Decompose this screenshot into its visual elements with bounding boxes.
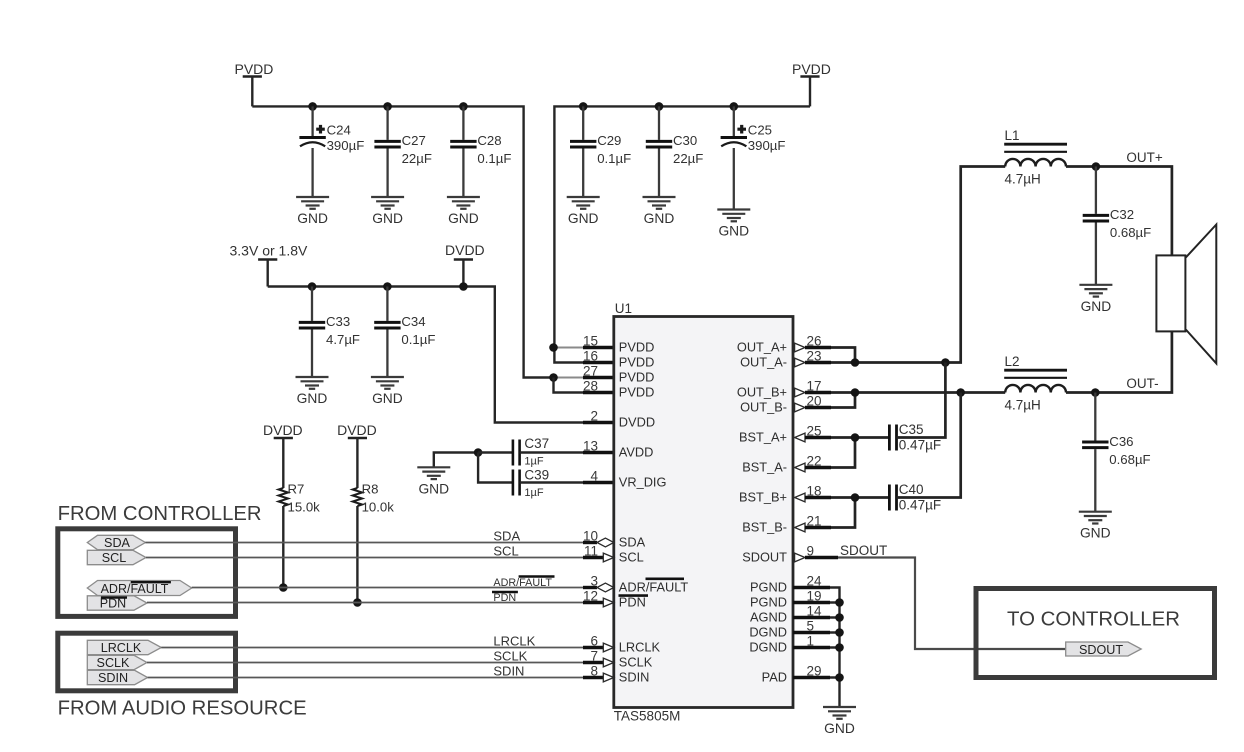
svg-text:GND: GND xyxy=(448,211,479,226)
wire SCLK xyxy=(147,662,583,664)
svg-text:OUT_B+: OUT_B+ xyxy=(737,384,787,399)
wire ADR/FAULT xyxy=(192,587,583,589)
node BST_A join xyxy=(851,433,860,442)
pin arrow SCL xyxy=(603,553,614,562)
node rail1/C28 xyxy=(459,102,468,111)
wire SDA xyxy=(145,542,583,544)
ground (C32) xyxy=(1079,285,1112,297)
svg-text:10.0k: 10.0k xyxy=(362,500,395,515)
svg-text:GND: GND xyxy=(1081,299,1112,314)
node rail2/C25 xyxy=(730,102,739,111)
wire OUT_A+ xyxy=(805,348,855,363)
svg-text:TAS5805M: TAS5805M xyxy=(614,708,681,723)
svg-text:1µF: 1µF xyxy=(524,455,543,467)
svg-text:AGND: AGND xyxy=(750,609,787,624)
net flag SDOUT out xyxy=(1066,642,1142,656)
wire pin 28 elbow xyxy=(554,378,614,393)
svg-text:390µF: 390µF xyxy=(327,138,365,153)
svg-text:BST_A+: BST_A+ xyxy=(739,429,787,444)
svg-text:GND: GND xyxy=(418,481,449,496)
node rail2/C30 xyxy=(655,102,664,111)
svg-text:OUT_B-: OUT_B- xyxy=(740,399,787,414)
svg-text:DVDD: DVDD xyxy=(619,414,655,429)
node BST_B join xyxy=(851,493,860,502)
box FROM CONTROLLER xyxy=(58,529,236,617)
wire PVDD rail 1 xyxy=(252,106,556,377)
node rail1/C27 xyxy=(383,102,392,111)
node PGND 19 xyxy=(835,598,844,607)
power flag DVDD R8 xyxy=(337,422,377,488)
svg-text:PVDD: PVDD xyxy=(619,384,655,399)
wire PVDD rail 2 xyxy=(554,106,810,362)
wire OUT_B+ to L2 xyxy=(805,391,1005,394)
node OUT-/C36 xyxy=(1091,388,1100,397)
node OUT_A join xyxy=(851,358,860,367)
wire SDOUT xyxy=(805,556,838,559)
ground (C34) xyxy=(371,377,404,389)
wire L2 to OUT- corner xyxy=(1066,331,1172,392)
svg-text:SCLK: SCLK xyxy=(97,656,130,670)
net flag PDN xyxy=(87,596,147,610)
svg-text:DVDD: DVDD xyxy=(337,422,377,438)
svg-text:OUT_A+: OUT_A+ xyxy=(737,339,787,354)
wire OUT_A- to L1 xyxy=(805,167,1005,363)
wire R7 to ADR/FAULT xyxy=(282,506,284,588)
capacitor C37 1µF xyxy=(478,436,549,467)
pin arrow LRCLK xyxy=(603,643,614,652)
svg-text:27: 27 xyxy=(583,364,598,379)
svg-text:AVDD: AVDD xyxy=(619,444,654,459)
svg-text:PGND: PGND xyxy=(750,594,787,609)
wire C39 branch xyxy=(478,453,513,483)
wire C35 to OUT_A- xyxy=(897,363,946,438)
pin names U1 left xyxy=(619,339,689,684)
svg-text:2: 2 xyxy=(590,409,598,424)
pin arrow BST_B- xyxy=(795,523,805,532)
svg-text:ADR/FAULT: ADR/FAULT xyxy=(101,582,169,596)
svg-text:FROM AUDIO RESOURCE: FROM AUDIO RESOURCE xyxy=(58,697,307,719)
svg-text:0.68µF: 0.68µF xyxy=(1110,225,1151,240)
svg-text:C27: C27 xyxy=(402,133,426,148)
wire C40 to OUT_B xyxy=(897,393,961,498)
wire L1 to OUT+ corner xyxy=(1066,167,1172,256)
node DGND 1 xyxy=(835,643,844,652)
svg-text:C32: C32 xyxy=(1110,207,1134,222)
svg-text:SDA: SDA xyxy=(619,534,646,549)
svg-text:C39: C39 xyxy=(524,468,549,483)
svg-text:VR_DIG: VR_DIG xyxy=(619,474,667,489)
svg-text:L2: L2 xyxy=(1005,354,1020,369)
pin arrow ADR/FAULT xyxy=(597,583,614,592)
wire AGND 14 xyxy=(793,616,840,618)
pin arrow OUT_A- xyxy=(795,358,805,367)
svg-text:C34: C34 xyxy=(401,314,425,329)
capacitor C36 0.68µF xyxy=(1082,393,1151,512)
svg-text:4.7µH: 4.7µH xyxy=(1005,397,1041,412)
svg-text:GND: GND xyxy=(372,211,403,226)
power flag DVDD top xyxy=(445,242,485,287)
svg-text:22µF: 22µF xyxy=(673,151,703,166)
svg-text:SDA: SDA xyxy=(104,536,130,550)
svg-text:SDIN: SDIN xyxy=(619,669,650,684)
wire R8 to PDN xyxy=(356,506,358,603)
net flag LRCLK xyxy=(87,640,161,654)
node pin27/28 junction xyxy=(549,373,558,382)
svg-text:0.68µF: 0.68µF xyxy=(1109,452,1150,467)
node rail3/DVDD xyxy=(459,282,468,291)
svg-text:TO CONTROLLER: TO CONTROLLER xyxy=(1007,609,1180,631)
box TO CONTROLLER xyxy=(976,589,1215,678)
svg-text:13: 13 xyxy=(583,439,598,454)
svg-text:SDOUT: SDOUT xyxy=(840,543,887,558)
capacitor C40 0.47µF xyxy=(889,482,941,512)
wire BST_A- xyxy=(805,438,855,468)
svg-text:ADR/FAULT: ADR/FAULT xyxy=(493,577,552,589)
wire PGND 24 elbow xyxy=(793,588,840,707)
capacitor C28 0.1µF xyxy=(450,106,511,197)
svg-text:PVDD: PVDD xyxy=(619,354,655,369)
net flag SCLK xyxy=(87,655,147,669)
svg-text:C29: C29 xyxy=(597,133,621,148)
node OUT+/C32 xyxy=(1092,162,1101,171)
wire LRCLK xyxy=(161,647,583,649)
ground (C33) xyxy=(296,377,329,389)
svg-text:GND: GND xyxy=(297,391,328,406)
wire pin 4 xyxy=(520,481,614,483)
pin arrow BST_A- xyxy=(795,463,805,472)
svg-text:GND: GND xyxy=(1080,526,1111,541)
capacitor C34 0.1µF xyxy=(374,287,435,378)
svg-text:PGND: PGND xyxy=(750,579,787,594)
ground (C24) xyxy=(296,197,329,209)
capacitor C30 22µF xyxy=(646,106,704,197)
svg-text:0.47µF: 0.47µF xyxy=(899,497,941,512)
svg-text:C36: C36 xyxy=(1109,434,1133,449)
wire pin 27 stub xyxy=(554,377,584,379)
resistor R8 10.0k xyxy=(353,482,395,515)
wire PAD 29 xyxy=(793,676,840,678)
svg-text:DGND: DGND xyxy=(749,639,787,654)
net flag SCL xyxy=(87,550,146,564)
svg-text:C35: C35 xyxy=(899,422,924,437)
overline FAULT (pin 3 name) xyxy=(646,577,685,580)
wire DGND 5 xyxy=(793,631,840,633)
ground (C25) xyxy=(717,210,750,222)
svg-text:PDN: PDN xyxy=(493,592,516,604)
svg-text:PVDD: PVDD xyxy=(619,339,655,354)
node rail3/C33 xyxy=(308,282,317,291)
capacitor C25 390µF xyxy=(721,106,786,209)
svg-text:OUT+: OUT+ xyxy=(1126,150,1162,165)
svg-text:SCLK: SCLK xyxy=(493,648,527,663)
svg-text:C33: C33 xyxy=(326,314,350,329)
node rail2/C29 xyxy=(579,102,588,111)
svg-text:LRCLK: LRCLK xyxy=(619,639,661,654)
wire 3.3V/DVDD rail xyxy=(268,287,614,423)
wire BST_A+ xyxy=(805,436,889,439)
svg-text:DVDD: DVDD xyxy=(445,242,485,258)
pin arrow SDA xyxy=(597,538,614,547)
svg-text:1µF: 1µF xyxy=(524,487,543,499)
svg-text:C40: C40 xyxy=(899,482,924,497)
svg-text:3.3V or 1.8V: 3.3V or 1.8V xyxy=(230,242,308,258)
wire BST_B+ xyxy=(805,496,889,499)
svg-text:SDA: SDA xyxy=(493,528,520,543)
pin numbers U1 right xyxy=(807,334,823,679)
svg-text:PAD: PAD xyxy=(762,669,787,684)
node AGND 14 xyxy=(835,613,844,622)
resistor R7 15.0k xyxy=(279,482,321,515)
capacitor C39 1µF xyxy=(513,468,549,499)
svg-text:C25: C25 xyxy=(748,123,772,138)
pin numbers U1 left xyxy=(583,334,599,679)
ground (C28) xyxy=(447,197,480,209)
wire pin 2 thick xyxy=(583,421,614,424)
overline PDN (pin 12 name) xyxy=(619,594,649,597)
svg-text:0.1µF: 0.1µF xyxy=(401,332,435,347)
pin arrow OUT_B- xyxy=(795,403,805,412)
wire pin 13 xyxy=(520,451,614,453)
ground (C29) xyxy=(567,197,600,209)
svg-text:GND: GND xyxy=(644,211,675,226)
svg-text:GND: GND xyxy=(297,211,328,226)
svg-text:L1: L1 xyxy=(1005,128,1020,143)
svg-text:PVDD: PVDD xyxy=(619,369,655,384)
svg-text:ADR/FAULT: ADR/FAULT xyxy=(619,579,689,594)
svg-text:SCL: SCL xyxy=(102,551,127,565)
svg-text:SCLK: SCLK xyxy=(619,654,653,669)
capacitor C33 4.7µF xyxy=(299,287,360,378)
svg-text:SCL: SCL xyxy=(619,549,644,564)
node R7/ADR_FAULT xyxy=(279,583,288,592)
overline FAULT (flag) xyxy=(131,581,171,583)
IC U1 TAS5805M body xyxy=(614,317,793,708)
svg-text:GND: GND xyxy=(372,391,403,406)
wire SDIN xyxy=(148,677,583,679)
svg-text:R8: R8 xyxy=(362,482,379,497)
svg-text:C24: C24 xyxy=(327,123,351,138)
svg-text:0.47µF: 0.47µF xyxy=(899,437,941,452)
svg-text:4.7µH: 4.7µH xyxy=(1005,171,1041,186)
box FROM AUDIO RESOURCE xyxy=(58,633,236,691)
inductor L2 4.7µH xyxy=(1004,354,1067,412)
net flag ADR/FAULT xyxy=(87,581,191,596)
wire PGND 19 xyxy=(793,601,840,603)
svg-text:OUT_A-: OUT_A- xyxy=(740,354,787,369)
node OUT_A-/C35 xyxy=(941,358,950,367)
ground (C37/C39) xyxy=(417,467,450,479)
node rail3/C34 xyxy=(383,282,392,291)
svg-text:15: 15 xyxy=(583,334,598,349)
svg-text:0.1µF: 0.1µF xyxy=(477,151,511,166)
pin arrow OUT_B+ xyxy=(795,388,805,397)
svg-text:15.0k: 15.0k xyxy=(288,500,321,515)
wire AVDD GND stem xyxy=(434,453,478,468)
pin arrow OUT_A+ xyxy=(795,343,805,352)
power flag DVDD R7 xyxy=(263,422,303,488)
svg-text:SDOUT: SDOUT xyxy=(742,549,787,564)
svg-text:390µF: 390µF xyxy=(748,138,786,153)
svg-text:SDOUT: SDOUT xyxy=(1079,643,1123,657)
inductor L1 4.7µH xyxy=(1004,128,1067,186)
power flag 3.3V or 1.8V xyxy=(230,242,308,286)
net flag SDIN xyxy=(87,670,147,684)
ground (PAD) xyxy=(823,707,856,719)
wire BST_B- xyxy=(805,498,855,528)
pin names U1 right xyxy=(737,339,787,684)
svg-text:BST_B-: BST_B- xyxy=(742,519,787,534)
svg-text:BST_B+: BST_B+ xyxy=(739,489,787,504)
svg-text:OUT-: OUT- xyxy=(1126,376,1158,391)
pin arrow SDOUT xyxy=(795,553,805,562)
node OUT_B/C40 xyxy=(956,388,965,397)
svg-text:U1: U1 xyxy=(615,301,632,316)
pin arrow BST_B+ xyxy=(795,493,805,502)
speaker xyxy=(1156,225,1216,364)
node OUT_B join xyxy=(851,388,860,397)
wire SCL xyxy=(146,557,583,559)
node pin15/16 junction xyxy=(549,343,558,352)
svg-text:R7: R7 xyxy=(288,482,305,497)
node R8/PDN xyxy=(353,598,362,607)
svg-text:22µF: 22µF xyxy=(402,151,432,166)
svg-text:4: 4 xyxy=(590,469,598,484)
capacitor C32 0.68µF xyxy=(1083,167,1152,285)
wire DGND 1 xyxy=(793,646,840,648)
net flag SDA xyxy=(87,535,145,549)
pin arrow PDN xyxy=(603,598,614,607)
power flag PVDD right xyxy=(792,61,831,106)
capacitor C29 0.1µF xyxy=(570,106,631,197)
svg-text:SDIN: SDIN xyxy=(493,663,524,678)
capacitor C27 22µF xyxy=(374,106,432,197)
pin arrow SDIN xyxy=(603,673,614,682)
ground (C27) xyxy=(371,197,404,209)
wire pin 16 thick xyxy=(583,361,614,364)
ground (C30) xyxy=(643,197,676,209)
node PAD 29 xyxy=(835,673,844,682)
overline PDN (flag) xyxy=(101,596,127,598)
wire PDN xyxy=(147,602,583,604)
ground (C36) xyxy=(1079,512,1112,524)
wire pin 15 stub xyxy=(554,347,584,349)
svg-text:SCL: SCL xyxy=(493,544,518,559)
capacitor C24 390µF xyxy=(299,106,364,197)
svg-text:C37: C37 xyxy=(524,436,549,451)
svg-text:DVDD: DVDD xyxy=(263,422,303,438)
capacitor C35 0.47µF xyxy=(889,422,941,452)
node DGND 5 xyxy=(835,628,844,637)
svg-text:DGND: DGND xyxy=(749,624,787,639)
svg-text:C30: C30 xyxy=(673,133,697,148)
svg-text:GND: GND xyxy=(568,211,599,226)
svg-text:BST_A-: BST_A- xyxy=(742,459,787,474)
svg-text:FROM CONTROLLER: FROM CONTROLLER xyxy=(58,503,262,525)
svg-text:0.1µF: 0.1µF xyxy=(597,151,631,166)
pin arrow BST_A+ xyxy=(795,433,805,442)
node C37/C39 junction xyxy=(474,448,483,457)
svg-text:28: 28 xyxy=(583,379,598,394)
svg-text:LRCLK: LRCLK xyxy=(493,633,535,648)
pin arrow SCLK xyxy=(603,658,614,667)
power flag PVDD left xyxy=(235,61,274,106)
svg-text:PVDD: PVDD xyxy=(235,61,274,77)
svg-text:C28: C28 xyxy=(477,133,501,148)
svg-text:PVDD: PVDD xyxy=(792,61,831,77)
svg-text:16: 16 xyxy=(583,349,598,364)
node rail1/C24 xyxy=(308,102,317,111)
svg-text:GND: GND xyxy=(824,721,855,736)
svg-text:SDIN: SDIN xyxy=(98,671,128,685)
svg-text:GND: GND xyxy=(718,224,749,239)
wire OUT_B- xyxy=(805,393,855,408)
svg-text:LRCLK: LRCLK xyxy=(101,641,142,655)
svg-text:4.7µF: 4.7µF xyxy=(326,332,360,347)
